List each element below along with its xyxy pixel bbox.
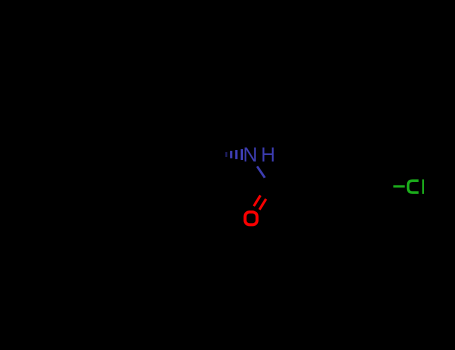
hashed wedge bond C1 to N : black half marks (invisible) xyxy=(215,153,217,156)
bond N to carbonyl C, blue half xyxy=(257,166,265,177)
svg-text:H: H xyxy=(261,145,275,167)
Cl label: l (cap-height bar) xyxy=(422,179,424,194)
hashed wedge bond: dim transition mark xyxy=(225,152,227,157)
svg-text:N: N xyxy=(243,145,257,167)
hashed wedge bond: blue mark 2 xyxy=(235,150,237,159)
benzene ring (black on black, invisible) xyxy=(299,151,381,222)
bond to Cl, green half xyxy=(393,185,405,187)
bond carbonyl C to benzene ipso (invisible) xyxy=(267,185,299,187)
C=O double bond, main line red half xyxy=(254,195,261,206)
hashed wedge bond: blue mark 1 xyxy=(230,151,232,158)
hashed wedge bond: blue mark 3 xyxy=(241,149,243,160)
C=O double bond, second line red half xyxy=(259,199,266,210)
carbonyl O label (squarish ring) xyxy=(245,212,257,225)
Cl label: C (squarish glyph) xyxy=(408,181,419,193)
cyclohexane ring (black on black, invisible) xyxy=(133,119,216,190)
bond N to carbonyl C, carbon half (invisible) xyxy=(265,178,267,185)
bond ring C to Cl, carbon half (invisible) xyxy=(381,185,393,187)
C=O double bond, carbon halves (invisible) xyxy=(261,185,268,196)
pentyl chain (black on black, invisible) xyxy=(27,155,133,176)
